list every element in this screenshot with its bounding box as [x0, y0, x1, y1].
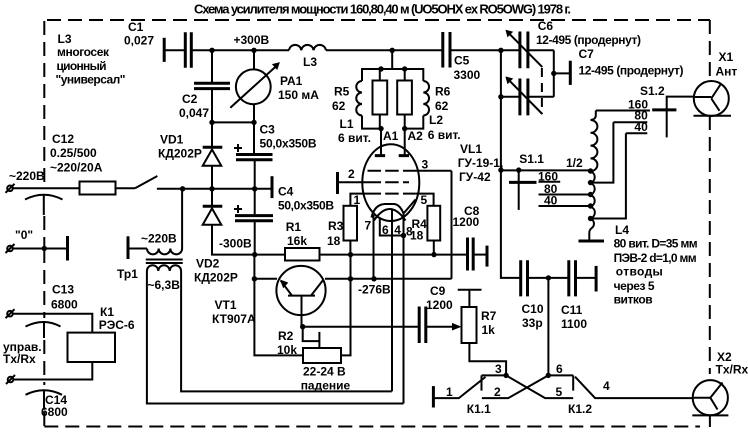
- svg-text:12-495 (продернут): 12-495 (продернут): [536, 33, 641, 47]
- svg-text:80 вит. D=35 мм: 80 вит. D=35 мм: [614, 237, 698, 251]
- heater wire lower: [147, 271, 404, 404]
- svg-text:5: 5: [556, 385, 563, 399]
- svg-text:C5: C5: [454, 54, 470, 68]
- capacitor C12 (feedthrough arc): [25, 195, 63, 200]
- chassis border top: [47, 19, 710, 21]
- svg-text:-300В: -300В: [219, 237, 252, 251]
- wire R1/R3 node down to R2 right: [341, 255, 351, 356]
- svg-text:C4: C4: [278, 185, 294, 199]
- svg-text:"универсал": "универсал": [56, 73, 126, 87]
- svg-text:VD2: VD2: [196, 257, 220, 271]
- capacitor C2: [211, 50, 213, 82]
- inductor L1: [362, 69, 381, 81]
- svg-text:6 вит.: 6 вит.: [338, 131, 371, 145]
- svg-text:18: 18: [327, 234, 341, 248]
- svg-text:0,027: 0,027: [124, 34, 154, 48]
- svg-text:0,047: 0,047: [179, 106, 209, 120]
- svg-text:6800: 6800: [51, 298, 78, 312]
- svg-text:РЭС-6: РЭС-6: [99, 318, 135, 332]
- tube cathode: [372, 200, 416, 218]
- svg-text:КД202Р: КД202Р: [194, 271, 238, 285]
- tube grid row 1 (pin 3): [368, 170, 415, 172]
- svg-text:КТ907А: КТ907А: [212, 312, 256, 326]
- svg-text:"0": "0": [15, 228, 33, 242]
- chassis border left: [43, 21, 45, 183]
- pin 4 lead: [391, 210, 393, 392]
- svg-text:А1: А1: [383, 129, 399, 143]
- svg-text:33p: 33p: [522, 316, 543, 330]
- svg-text:L1: L1: [340, 117, 354, 131]
- svg-text:1200: 1200: [453, 215, 480, 229]
- capacitor C1: [185, 32, 191, 67]
- svg-text:40: 40: [634, 120, 648, 134]
- wire between C2 and PA1 bottoms: [212, 121, 254, 123]
- tube VL1 envelope: [362, 144, 419, 221]
- svg-text:4: 4: [603, 379, 610, 393]
- svg-text:через 5: через 5: [614, 279, 655, 293]
- resistor R6: [404, 69, 406, 81]
- wire: [116, 187, 136, 189]
- fuse: [80, 182, 116, 195]
- svg-text:Схема усилителя мощности 160,8: Схема усилителя мощности 160,80,40 м (UO…: [194, 2, 571, 17]
- svg-text:16k: 16k: [287, 234, 307, 248]
- svg-text:3: 3: [422, 158, 429, 172]
- svg-text:К1: К1: [100, 305, 114, 319]
- svg-text:Тр1: Тр1: [117, 267, 138, 281]
- svg-text:R7: R7: [481, 309, 497, 323]
- tube heater arc: [374, 209, 406, 221]
- wire with arrow to R7: [426, 326, 456, 328]
- svg-text:R3: R3: [328, 219, 344, 233]
- svg-text:ционный: ционный: [57, 59, 107, 73]
- inductor L4: [591, 111, 596, 121]
- svg-text:6 вит.: 6 вит.: [428, 128, 461, 142]
- svg-text:1: 1: [446, 385, 453, 399]
- svg-text:1200: 1200: [426, 298, 453, 312]
- svg-text:10k: 10k: [277, 343, 297, 357]
- svg-text:L3: L3: [58, 32, 72, 46]
- wire: [13, 187, 80, 189]
- anode network top feed: [391, 50, 393, 69]
- resistor R5: [379, 69, 381, 81]
- svg-text:РА1: РА1: [280, 74, 303, 88]
- svg-text:C3: C3: [260, 123, 276, 137]
- svg-text:150 мА: 150 мА: [278, 88, 319, 102]
- inductor L3 choke: [289, 45, 326, 50]
- svg-text:22-24 В: 22-24 В: [303, 365, 346, 379]
- svg-text:ГУ-42: ГУ-42: [459, 170, 491, 184]
- svg-text:2: 2: [348, 167, 355, 181]
- wire -300V rail to R4 and C8: [351, 254, 468, 256]
- wire tube pin 3 down to cathode rail: [451, 171, 453, 279]
- Tr1 core: [146, 260, 183, 264]
- wire C6 node down to C10: [501, 170, 520, 278]
- svg-text:R5: R5: [334, 85, 350, 99]
- wire base node to C9: [303, 326, 418, 328]
- svg-text:ГУ-19-1,: ГУ-19-1,: [458, 156, 504, 170]
- wire C4 node down to R2: [254, 255, 303, 355]
- control terminal lower: [8, 377, 14, 383]
- svg-text:C10: C10: [522, 302, 544, 316]
- svg-text:12-495 (продернут): 12-495 (продернут): [579, 64, 684, 78]
- svg-text:1k: 1k: [482, 323, 496, 337]
- svg-text:C9: C9: [430, 284, 446, 298]
- svg-text:C13: C13: [52, 283, 74, 297]
- tube grid row 2 (pin 2): [368, 181, 410, 183]
- chassis border right: [709, 20, 711, 81]
- svg-text:L3: L3: [303, 55, 317, 69]
- svg-text:VD1: VD1: [160, 133, 184, 147]
- wire: [164, 49, 184, 51]
- capacitor C13 arc: [26, 322, 61, 327]
- svg-text:50,0х350В: 50,0х350В: [278, 199, 334, 213]
- capacitor C1 input terminal: [163, 38, 166, 62]
- svg-text:6: 6: [556, 362, 563, 376]
- svg-text:Х1: Х1: [719, 50, 734, 64]
- svg-text:C6: C6: [538, 19, 554, 33]
- meter PA1: [253, 50, 255, 69]
- svg-text:3300: 3300: [454, 68, 481, 82]
- svg-text:1100: 1100: [561, 317, 587, 331]
- svg-text:R6: R6: [435, 85, 451, 99]
- svg-text:+300В: +300В: [234, 33, 270, 47]
- C6 right side wire: [553, 50, 555, 97]
- svg-text:~220В: ~220В: [141, 232, 177, 246]
- svg-text:L4: L4: [615, 223, 629, 237]
- svg-text:50,0х350В: 50,0х350В: [260, 137, 317, 151]
- svg-text:18: 18: [410, 229, 424, 243]
- L4 tap dots: [588, 168, 593, 173]
- svg-text:3: 3: [495, 362, 502, 376]
- svg-text:R1: R1: [286, 220, 302, 234]
- svg-text:ПЭВ-2 d=1,0 мм: ПЭВ-2 d=1,0 мм: [614, 251, 697, 265]
- svg-text:L2: L2: [429, 113, 443, 127]
- svg-text:6800: 6800: [41, 405, 68, 419]
- svg-text:VT1: VT1: [215, 298, 237, 312]
- svg-text:62: 62: [435, 99, 449, 113]
- pin 8 lead: [403, 214, 405, 404]
- capacitor C14 arc: [26, 390, 63, 395]
- heater wire upper: [181, 271, 392, 391]
- svg-text:S1.1: S1.1: [519, 152, 544, 166]
- svg-text:Tx/Rx: Tx/Rx: [716, 363, 748, 377]
- node dots on +300V rail: [209, 48, 214, 53]
- switch blade: [135, 176, 157, 188]
- +300V rail wire: [191, 49, 554, 51]
- svg-text:~6,3В: ~6,3В: [148, 278, 181, 292]
- svg-text:К1.2: К1.2: [568, 402, 592, 416]
- wire to rectifier: [157, 188, 255, 190]
- Tr1 primary: [127, 236, 130, 259]
- svg-text:К1.1: К1.1: [467, 402, 491, 416]
- svg-text:7: 7: [365, 219, 372, 233]
- svg-text:C12: C12: [52, 132, 74, 146]
- svg-text:~220/20А: ~220/20А: [50, 161, 103, 175]
- svg-text:S1.2: S1.2: [640, 84, 665, 98]
- svg-text:Ант: Ант: [716, 65, 738, 79]
- collector rail wire -276V: [325, 278, 452, 280]
- C6 bottom side wire: [500, 50, 502, 170]
- chassis border bottom: [44, 426, 700, 428]
- svg-text:2: 2: [494, 385, 501, 399]
- svg-text:C7: C7: [579, 47, 595, 61]
- svg-text:1/2: 1/2: [566, 156, 583, 170]
- svg-text:~220В: ~220В: [9, 169, 45, 183]
- svg-text:КД202Р: КД202Р: [158, 147, 202, 161]
- svg-text:VL1: VL1: [460, 142, 482, 156]
- inductor L2: [405, 69, 424, 81]
- wire C10/C11 node down to contact 6: [547, 278, 549, 376]
- svg-text:C11: C11: [561, 303, 583, 317]
- emitter rail wire: [254, 278, 277, 280]
- svg-text:C2: C2: [182, 92, 198, 106]
- svg-text:62: 62: [332, 99, 346, 113]
- svg-text:-276В: -276В: [358, 283, 391, 297]
- svg-text:R2: R2: [278, 329, 294, 343]
- tube grid row 3 (pins 1,5): [368, 193, 416, 195]
- svg-text:многосек: многосек: [57, 45, 110, 59]
- svg-text:0.25/500: 0.25/500: [50, 146, 97, 160]
- svg-text:А2: А2: [408, 129, 424, 143]
- gang coupling dashes: [541, 68, 543, 114]
- svg-text:отводы: отводы: [616, 265, 663, 279]
- relay contact K1.1 armature 1: [432, 386, 435, 407]
- ground: [579, 240, 605, 243]
- svg-text:витков: витков: [614, 293, 653, 307]
- svg-text:C1: C1: [128, 20, 144, 34]
- svg-text:падение: падение: [301, 379, 351, 393]
- svg-text:Tx/Rx: Tx/Rx: [3, 352, 36, 366]
- L4 bottom hook to ground: [589, 219, 594, 242]
